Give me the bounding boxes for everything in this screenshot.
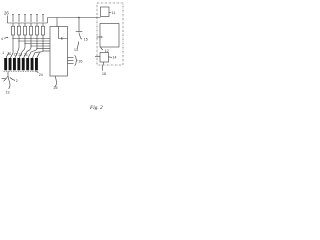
switch 2 leader — [10, 78, 15, 81]
resistor R1 — [12, 23, 15, 35]
switch 15 drop — [78, 18, 80, 32]
block 12 box — [100, 24, 119, 48]
resistor R6 — [42, 23, 45, 35]
IC bottom lead to 25 — [55, 76, 57, 87]
svg-text:22: 22 — [18, 53, 22, 57]
electrode hook 7 — [32, 53, 35, 59]
svg-text:13: 13 — [6, 91, 10, 95]
wire leader from 26 — [7, 16, 9, 24]
junction dot — [18, 40, 19, 41]
resistor R5 — [36, 23, 39, 35]
output stub 1 — [68, 57, 74, 59]
junction dot — [36, 48, 37, 49]
feed arrow 2 — [18, 15, 20, 23]
stub into block 12 — [97, 36, 102, 38]
junction dot — [12, 38, 13, 39]
wire channel 2 — [17, 35, 50, 53]
svg-text:14: 14 — [113, 56, 117, 60]
label 4 leader — [4, 37, 7, 40]
junction dot — [30, 45, 31, 46]
resistor R4 — [30, 23, 33, 35]
resistor R3 — [24, 23, 27, 35]
output stub 3 — [68, 63, 74, 65]
junction dot — [24, 43, 25, 44]
IC U1 box — [50, 27, 68, 77]
label 14 leader — [109, 56, 113, 59]
svg-text:Fig. 2: Fig. 2 — [89, 105, 103, 111]
label 11 leader — [109, 11, 112, 14]
svg-text:23: 23 — [24, 53, 28, 57]
svg-text:2: 2 — [16, 79, 18, 83]
label 24 leader — [36, 71, 39, 73]
node junction at switch drop — [78, 17, 80, 19]
switch 2 stem — [7, 72, 9, 77]
svg-text:13: 13 — [74, 48, 78, 52]
dashed enclosure — [97, 3, 123, 65]
wire 18 lead — [102, 62, 103, 71]
electrode hook 8 — [37, 53, 40, 59]
block 11 box — [101, 7, 110, 17]
svg-text:26: 26 — [79, 60, 83, 64]
wire supply rail A — [8, 22, 48, 24]
svg-text:15: 15 — [84, 38, 88, 42]
wire rail B drop into IC — [56, 18, 58, 27]
wire channel 6 — [35, 35, 50, 53]
feed arrow 5 — [36, 15, 38, 23]
stub into block 14 — [95, 56, 100, 58]
svg-text:20: 20 — [8, 52, 12, 56]
switch 2 fixed lead — [2, 78, 6, 80]
wire top rail B — [48, 17, 101, 19]
switch 2 blade — [4, 76, 9, 81]
svg-text:11: 11 — [112, 11, 116, 15]
electrode hook 6 — [28, 53, 31, 59]
electrode bar 2 — [9, 58, 12, 70]
feed arrow 6 — [42, 15, 44, 23]
junction dot — [42, 50, 43, 51]
electrode hook 1 — [6, 53, 9, 59]
svg-text:1: 1 — [2, 51, 4, 55]
feed arrow 3 — [24, 15, 26, 23]
feed arrow 1 — [12, 15, 14, 23]
svg-text:25: 25 — [54, 86, 58, 90]
electrode bar 7 — [31, 58, 34, 70]
wire to 13 lower left — [8, 76, 10, 89]
svg-text:24: 24 — [39, 73, 43, 77]
feed arrow 4 — [30, 15, 32, 23]
svg-text:4: 4 — [1, 37, 3, 41]
baseline under electrodes — [4, 71, 39, 73]
wire 13 middle — [77, 42, 78, 49]
svg-text:18: 18 — [102, 72, 106, 76]
wire channel 4 — [26, 35, 50, 53]
wire channel 3 — [22, 35, 50, 53]
label 12 leader — [101, 47, 104, 50]
switch 15 arrow — [81, 38, 83, 40]
electrode bar 3 — [13, 58, 16, 70]
electrode hook 3 — [15, 53, 18, 59]
wire channel 1 — [13, 35, 50, 53]
switch 15 fixed plate — [76, 31, 83, 33]
electrode bar 5 — [22, 58, 25, 70]
electrode bar 1 — [4, 58, 7, 70]
svg-text:21: 21 — [14, 53, 18, 57]
switch 15 blade — [79, 33, 81, 39]
svg-text:26: 26 — [4, 11, 9, 16]
output stub 2 — [68, 60, 74, 62]
electrode hook 2 — [10, 53, 13, 59]
electrode hook 4 — [19, 53, 22, 59]
electrode bar 4 — [17, 58, 20, 70]
wire channel 5 — [31, 35, 50, 53]
electrode hook 5 — [24, 53, 27, 59]
block 14 box — [100, 53, 109, 63]
resistor R2 — [18, 23, 21, 35]
electrode bar 6 — [26, 58, 29, 70]
electrode bar 8 — [35, 58, 38, 70]
IC inner sub-block — [59, 27, 68, 39]
wire rail A rise to rail B — [47, 18, 49, 24]
brace for 26 — [75, 56, 78, 66]
